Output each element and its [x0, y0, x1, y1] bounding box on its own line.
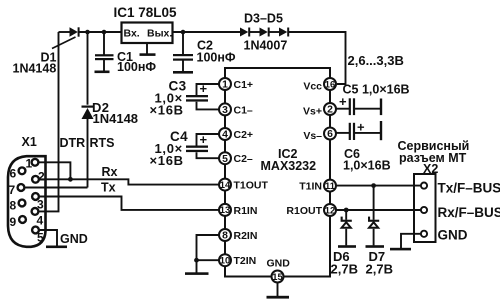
svg-text:13: 13	[220, 204, 230, 215]
capacitor C5	[336, 108, 349, 110]
svg-text:2,7В: 2,7В	[331, 262, 358, 277]
connector X2 box	[414, 174, 436, 242]
svg-text:4: 4	[37, 214, 44, 228]
svg-text:D3–D5: D3–D5	[244, 12, 283, 26]
svg-text:GND: GND	[60, 232, 88, 246]
svg-text:11: 11	[325, 180, 335, 191]
pin 15 GND	[272, 271, 284, 283]
wire pin1 to Rx junction	[39, 162, 70, 179]
wire X2 GND	[401, 234, 421, 248]
pin 9	[19, 216, 26, 223]
pin 5 C2-	[219, 152, 231, 164]
wire DTR: pin4 up to top rail	[40, 32, 59, 211]
svg-text:IC1 78L05: IC1 78L05	[114, 5, 178, 20]
svg-text:3: 3	[222, 105, 228, 116]
connector X2 pins	[421, 183, 427, 237]
wire	[250, 31, 260, 33]
pin 8 R2IN	[219, 229, 231, 241]
svg-text:4: 4	[222, 130, 228, 141]
svg-text:+: +	[200, 81, 208, 96]
svg-text:T1IN: T1IN	[299, 181, 322, 193]
IC2 pin names	[234, 79, 269, 267]
svg-text:Tx/F–BUS: Tx/F–BUS	[438, 180, 500, 195]
ground C2	[173, 71, 193, 74]
pin 5	[32, 227, 39, 234]
pin 11 T1IN	[324, 180, 336, 192]
svg-text:100нФ: 100нФ	[117, 60, 156, 74]
ground 78L05	[146, 43, 148, 54]
pin 3	[32, 193, 39, 200]
ground pin15	[277, 283, 279, 297]
ground R2IN/T2IN	[185, 272, 209, 275]
svg-text:2: 2	[38, 170, 45, 184]
svg-text:C1–: C1–	[234, 104, 253, 116]
pin 1 C1+	[219, 78, 231, 90]
zener D7	[373, 186, 375, 220]
svg-text:1: 1	[26, 157, 33, 171]
wire	[270, 31, 280, 33]
wire Tx: pin3 to R1IN	[39, 197, 219, 210]
svg-text:Vcc: Vcc	[303, 80, 322, 92]
svg-text:C2+: C2+	[234, 129, 254, 141]
capacitor C1	[103, 32, 105, 55]
svg-text:Rx: Rx	[102, 165, 118, 179]
wire R1OUT to X2	[336, 209, 421, 211]
svg-text:1: 1	[222, 80, 228, 91]
svg-text:Вх.: Вх.	[124, 28, 140, 40]
svg-text:2,7В: 2,7В	[366, 262, 393, 277]
svg-text:R1OUT: R1OUT	[286, 205, 322, 217]
pin 10 T2IN	[219, 254, 231, 266]
pin digits X1	[9, 157, 46, 245]
svg-text:Tx: Tx	[101, 181, 116, 195]
svg-text:DTR: DTR	[60, 136, 86, 150]
connector X1 shell	[8, 156, 46, 247]
pin 7	[18, 184, 25, 191]
diode D1	[70, 27, 78, 36]
svg-text:8: 8	[10, 199, 17, 213]
IC1 78L05 box	[122, 23, 173, 44]
diode D2	[87, 32, 89, 105]
pin 1	[32, 159, 39, 166]
node junction C2	[181, 30, 186, 35]
svg-text:1N4148: 1N4148	[93, 111, 139, 126]
pin 6 Vs-	[324, 128, 336, 140]
svg-text:1N4148: 1N4148	[13, 62, 57, 76]
ground X1	[46, 246, 67, 249]
wire top rail left from DTR corner to 78L05 input	[59, 31, 71, 33]
diode D5	[279, 28, 287, 37]
wire Rx: pin2 to T1OUT	[39, 179, 219, 184]
ground X2	[390, 248, 411, 251]
svg-text:5: 5	[37, 231, 44, 245]
capacitor C4 loop	[197, 134, 220, 146]
svg-text:2: 2	[327, 105, 333, 116]
wire D1 cathode to 78L05	[79, 31, 122, 33]
capacitor C6	[336, 132, 349, 134]
svg-text:6: 6	[327, 129, 333, 140]
svg-text:8: 8	[222, 231, 228, 242]
diode D4	[260, 28, 268, 37]
wire RTS: pin7 to D2	[26, 187, 88, 189]
svg-text:Вых.: Вых.	[147, 28, 172, 40]
svg-text:+: +	[200, 132, 208, 147]
wire R2IN ground	[197, 235, 220, 273]
svg-text:Rx/F–BUS: Rx/F–BUS	[438, 205, 500, 220]
svg-text:2,6...3,3В: 2,6...3,3В	[348, 53, 404, 68]
wire pin5 to ground	[39, 230, 57, 246]
svg-text:×16В: ×16В	[150, 103, 184, 118]
wire D5 to Vcc	[289, 32, 346, 84]
pin 13 R1IN	[219, 204, 231, 216]
wire T1IN to X2	[336, 185, 421, 187]
svg-text:C2–: C2–	[234, 153, 253, 165]
IC2 box	[225, 68, 330, 277]
zener D6	[345, 210, 347, 220]
capacitor C3 loop	[197, 84, 220, 95]
diode D3	[240, 28, 248, 37]
svg-text:5: 5	[222, 154, 228, 165]
pin 3 C1-	[219, 103, 231, 115]
ground C1	[95, 71, 110, 74]
svg-text:12: 12	[325, 204, 335, 215]
svg-text:9: 9	[10, 215, 17, 229]
svg-text:10: 10	[220, 255, 230, 266]
pin 14 T1OUT	[219, 179, 231, 191]
svg-text:16: 16	[325, 78, 335, 89]
pin 6	[19, 167, 26, 174]
wire 78L05 output rail	[173, 31, 241, 33]
node junction D7	[371, 183, 376, 188]
connector X1 pins	[18, 159, 39, 234]
svg-text:C5 1,0×16В: C5 1,0×16В	[343, 83, 410, 97]
pin 16 Vcc	[324, 78, 336, 90]
svg-text:×16В: ×16В	[150, 153, 184, 168]
wire T2IN ground	[197, 259, 220, 261]
svg-text:T2IN: T2IN	[234, 255, 257, 267]
pin 2	[32, 176, 39, 183]
pin 12 R1OUT	[324, 204, 336, 216]
leader D1	[52, 37, 76, 49]
node junction pin1/pin2	[68, 177, 73, 182]
node junction	[194, 258, 199, 263]
svg-text:GND: GND	[267, 258, 291, 270]
IC2 pin circles	[219, 78, 336, 283]
svg-text:RTS: RTS	[90, 136, 115, 150]
svg-text:T1OUT: T1OUT	[234, 180, 269, 192]
svg-text:+: +	[357, 120, 365, 135]
svg-text:14: 14	[220, 179, 231, 190]
IC2 pin numbers	[222, 80, 333, 242]
svg-text:GND: GND	[438, 228, 468, 243]
svg-text:MAX3232: MAX3232	[261, 159, 317, 173]
svg-text:R1IN: R1IN	[234, 205, 258, 217]
pin 8	[19, 200, 26, 207]
svg-text:Vs+: Vs+	[303, 105, 322, 117]
svg-text:R2IN: R2IN	[234, 230, 258, 242]
node junction C1 rail	[102, 30, 107, 35]
svg-text:1N4007: 1N4007	[244, 39, 288, 53]
svg-text:C1+: C1+	[234, 79, 254, 91]
svg-text:15: 15	[272, 271, 282, 282]
pin 4	[32, 208, 39, 215]
svg-text:1,0×16В: 1,0×16В	[343, 159, 391, 173]
capacitor C2	[182, 32, 184, 54]
pin 4 C2+	[219, 128, 231, 140]
svg-text:разъем МТ: разъем МТ	[399, 151, 467, 165]
svg-text:Vs–: Vs–	[303, 130, 322, 142]
node junction D2 rail	[85, 30, 90, 35]
svg-text:6: 6	[10, 167, 17, 181]
svg-text:7: 7	[9, 183, 16, 197]
node junction D6	[344, 208, 349, 213]
svg-text:100нФ: 100нФ	[197, 51, 236, 65]
svg-text:X1: X1	[22, 135, 37, 149]
svg-text:3: 3	[37, 198, 44, 212]
pin 2 Vs+	[324, 103, 336, 115]
